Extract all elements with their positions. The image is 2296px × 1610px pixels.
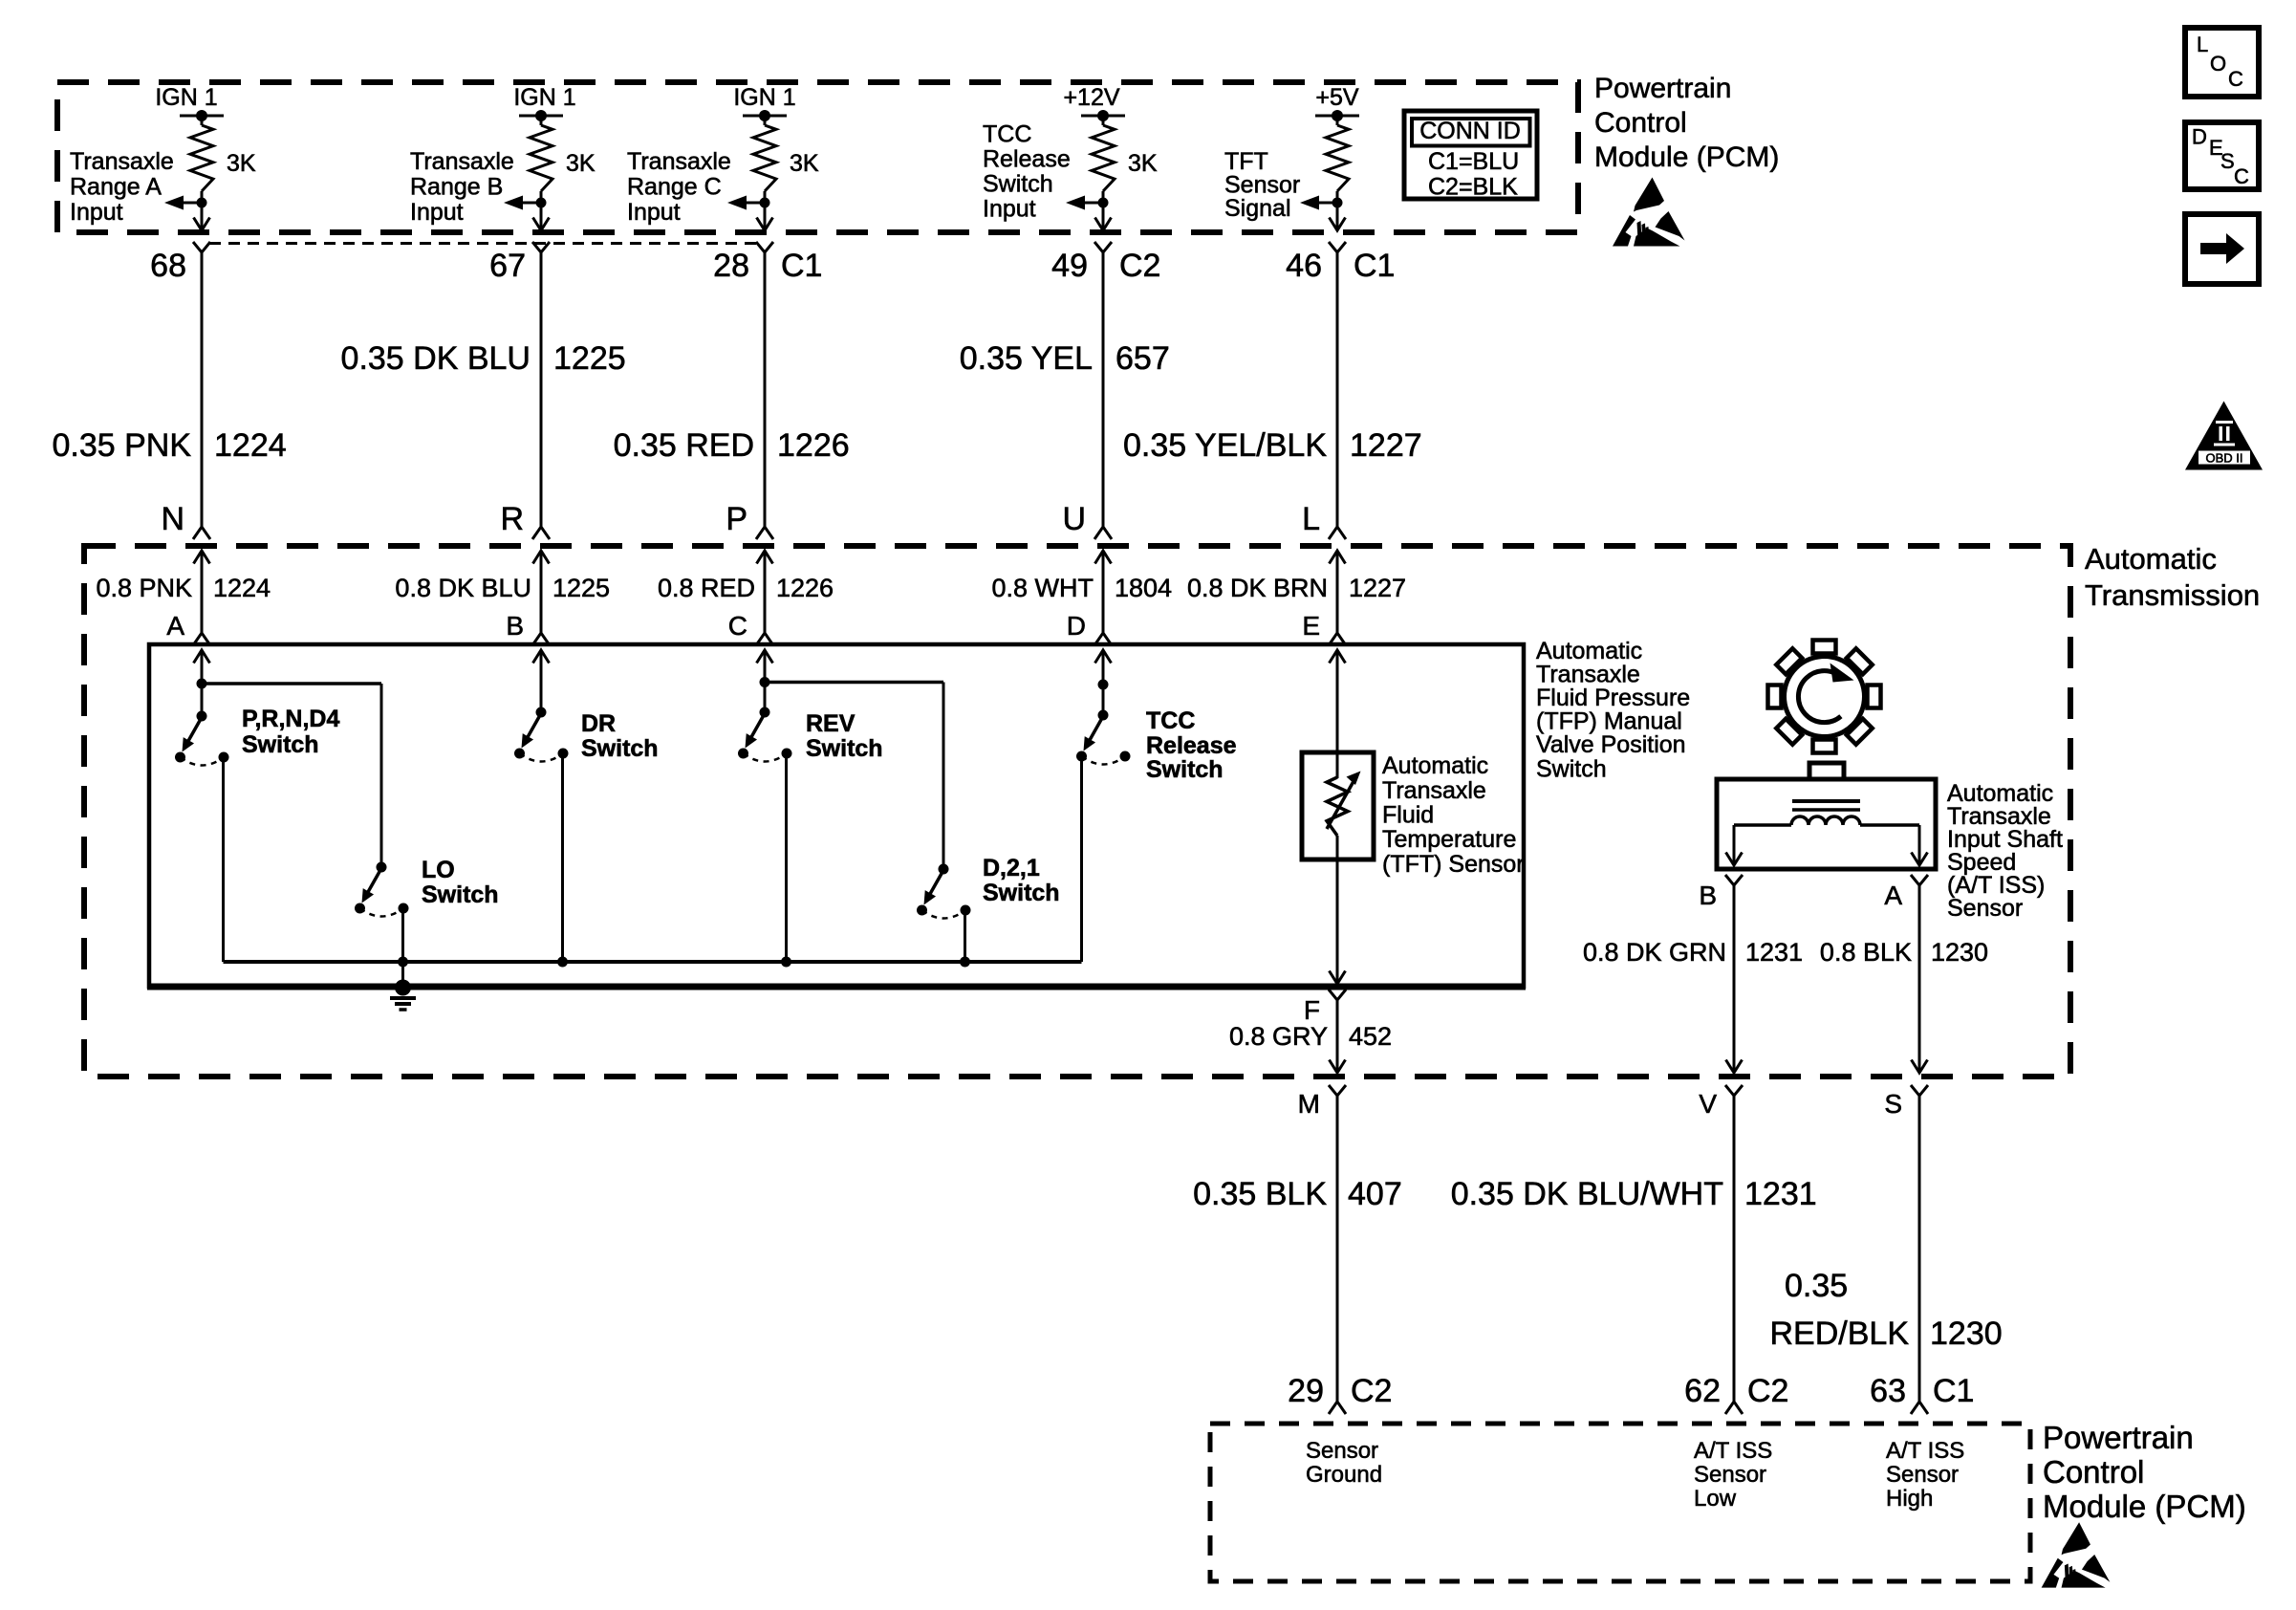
- input tap arrow / node (column R4): [1066, 196, 1109, 210]
- svg-text:Input: Input: [70, 199, 123, 226]
- svg-text:Control: Control: [2043, 1454, 2144, 1490]
- svg-text:E: E: [1302, 611, 1320, 641]
- svg-text:Ground: Ground: [1306, 1462, 1382, 1488]
- wire to module edge: [1330, 203, 1346, 230]
- Powertrain Control Module (PCM) box, top: [57, 82, 1578, 232]
- svg-text:Low: Low: [1694, 1486, 1737, 1512]
- svg-text:Switch: Switch: [983, 880, 1060, 906]
- wire 0.35 BLK 407: [1193, 1096, 1402, 1402]
- svg-text:Transaxle: Transaxle: [627, 148, 731, 175]
- svg-text:Switch: Switch: [422, 881, 499, 908]
- svg-text:Transaxle: Transaxle: [410, 148, 514, 175]
- svg-text:46: 46: [1286, 248, 1322, 284]
- svg-text:1226: 1226: [776, 574, 834, 602]
- svg-text:0.8 DK BLU: 0.8 DK BLU: [395, 574, 531, 602]
- svg-text:1230: 1230: [1931, 938, 1988, 967]
- svg-text:CONN ID: CONN ID: [1419, 118, 1521, 144]
- wire 0.8 DK BLU 1225: [395, 574, 610, 602]
- svg-text:0.35 YEL/BLK: 0.35 YEL/BLK: [1123, 427, 1327, 464]
- DESC icon box: [2185, 122, 2259, 189]
- pin D at TFP switch: [1067, 611, 1112, 645]
- input tap arrow / node (column R3): [727, 196, 770, 210]
- resistor R5 3K: [1326, 116, 1349, 203]
- pin A at TFP switch: [166, 611, 210, 645]
- connector pin 68: [150, 242, 210, 284]
- svg-text:1225: 1225: [553, 340, 626, 377]
- switch P,R,N,D4: [175, 650, 381, 766]
- input tap arrow / node (column R1): [164, 196, 207, 210]
- svg-text:49: 49: [1051, 248, 1088, 284]
- svg-text:0.8 DK GRN: 0.8 DK GRN: [1583, 938, 1726, 967]
- ground connection: [390, 962, 416, 1010]
- svg-text:3K: 3K: [566, 150, 596, 177]
- svg-text:3K: 3K: [227, 150, 256, 177]
- common bus wire: [224, 960, 1082, 964]
- wire 0.8 WHT 1804: [991, 574, 1172, 602]
- svg-text:DR: DR: [581, 710, 616, 737]
- svg-text:Automatic: Automatic: [2085, 542, 2217, 576]
- svg-text:0.35 BLK: 0.35 BLK: [1193, 1176, 1327, 1212]
- switch DR: [514, 650, 659, 762]
- junction: [398, 957, 408, 968]
- svg-text:Transaxle: Transaxle: [70, 148, 174, 175]
- svg-text:1226: 1226: [777, 427, 850, 464]
- wire 0.35 PNK 1224: [52, 252, 286, 527]
- wire into TFP switch box: [757, 650, 773, 664]
- svg-text:(TFT) Sensor: (TFT) Sensor: [1382, 851, 1525, 878]
- svg-text:O: O: [2210, 52, 2226, 76]
- ISS sensor box: [1717, 763, 1936, 869]
- connector pin 49 C2: [1051, 242, 1160, 284]
- input tap arrow / node (column R5): [1300, 196, 1343, 210]
- svg-text:Switch: Switch: [806, 735, 883, 762]
- wire from REV switch to bus: [785, 755, 788, 962]
- svg-text:0.35 RED: 0.35 RED: [614, 427, 754, 464]
- svg-text:OBD II: OBD II: [2205, 451, 2242, 466]
- svg-text:Switch: Switch: [581, 735, 659, 762]
- svg-text:V: V: [1699, 1089, 1717, 1119]
- text label column R5: [1224, 148, 1300, 222]
- svg-text:29: 29: [1288, 1373, 1324, 1409]
- connector pin 62 C2: [1684, 1373, 1788, 1414]
- junction: [557, 957, 568, 968]
- connector pin 28 C1: [713, 242, 822, 284]
- svg-text:67: 67: [489, 248, 526, 284]
- resistor R4 3K: [1092, 116, 1158, 203]
- svg-text:C1: C1: [781, 248, 822, 284]
- resistor R3 3K: [753, 116, 819, 203]
- pin B of ISS sensor: [1699, 875, 1743, 910]
- svg-text:D: D: [1067, 611, 1086, 641]
- svg-text:C: C: [2234, 164, 2249, 188]
- switch D,2,1: [917, 683, 1060, 919]
- OBD II triangle symbol: [2185, 402, 2263, 470]
- svg-text:C2=BLK: C2=BLK: [1428, 174, 1518, 201]
- svg-text:Temperature: Temperature: [1382, 826, 1516, 853]
- svg-text:1224: 1224: [214, 427, 287, 464]
- gear rotor: [1768, 641, 1881, 753]
- svg-text:3K: 3K: [790, 150, 819, 177]
- svg-text:1224: 1224: [213, 574, 271, 602]
- svg-text:657: 657: [1116, 340, 1170, 377]
- svg-text:0.8 RED: 0.8 RED: [658, 574, 755, 602]
- power net IGN 1 (column R3): [733, 84, 795, 121]
- svg-text:0.35 DK BLU: 0.35 DK BLU: [341, 340, 531, 377]
- wire 0.8 DK GRN 1231: [1583, 885, 1803, 1073]
- svg-text:Range C: Range C: [627, 174, 722, 201]
- svg-text:A: A: [1884, 881, 1902, 910]
- connector pin 63 C1: [1870, 1373, 1974, 1414]
- svg-text:C1: C1: [1933, 1373, 1974, 1409]
- svg-text:0.35 PNK: 0.35 PNK: [52, 427, 191, 464]
- svg-text:1231: 1231: [1745, 938, 1803, 967]
- switch TCC Release: [1076, 650, 1237, 783]
- TFP switch label: [1536, 638, 1690, 783]
- text label column R2: [410, 148, 514, 226]
- wire into TFP switch box: [533, 650, 550, 664]
- pin C at TFP switch: [728, 611, 773, 645]
- TFT sensor label: [1382, 752, 1525, 878]
- connector pin 29 C2: [1288, 1373, 1392, 1414]
- svg-text:Powertrain: Powertrain: [1594, 73, 1731, 104]
- connector pin 46 C1: [1286, 242, 1395, 284]
- wire into TFP switch box: [1095, 650, 1112, 664]
- wire 0.35 RED 1226: [614, 252, 850, 527]
- svg-text:C1: C1: [1354, 248, 1395, 284]
- svg-text:C1=BLU: C1=BLU: [1428, 148, 1519, 175]
- svg-text:63: 63: [1870, 1373, 1906, 1409]
- resistor R1 3K: [190, 116, 256, 203]
- A/T ISS Sensor Low label: [1694, 1438, 1772, 1512]
- resistor R2 3K: [530, 116, 596, 203]
- wire 0.35 DK BLU 1225: [341, 252, 626, 527]
- svg-text:Release: Release: [1146, 732, 1237, 759]
- pin A of ISS sensor: [1884, 875, 1928, 910]
- Sensor Ground label: [1306, 1438, 1382, 1488]
- LOC icon box: [2185, 28, 2259, 97]
- wire 0.35 YEL/BLK 1227: [1123, 252, 1422, 527]
- svg-text:M: M: [1298, 1089, 1320, 1119]
- svg-text:Switch: Switch: [1536, 756, 1607, 783]
- svg-text:Sensor: Sensor: [1947, 895, 2023, 922]
- TFT sensor (thermistor): [1302, 752, 1374, 859]
- svg-text:S: S: [1884, 1089, 1902, 1119]
- connector C1 boundary (dashed): [209, 242, 756, 245]
- wire 0.35 YEL 657: [960, 252, 1170, 527]
- svg-text:RED/BLK: RED/BLK: [1770, 1316, 1910, 1352]
- svg-text:28: 28: [713, 248, 749, 284]
- power net +12V (column R4): [1063, 84, 1125, 121]
- wire into transmission: [757, 551, 773, 633]
- svg-text:C: C: [728, 611, 747, 641]
- svg-text:Module (PCM): Module (PCM): [2043, 1489, 2246, 1524]
- connector pin N at transmission: [161, 501, 210, 539]
- svg-text:C2: C2: [1351, 1373, 1392, 1409]
- wire into transmission: [1330, 551, 1346, 633]
- svg-text:452: 452: [1349, 1022, 1392, 1051]
- pin B at TFP switch: [506, 611, 550, 645]
- svg-text:C2: C2: [1119, 248, 1160, 284]
- svg-text:1231: 1231: [1744, 1176, 1817, 1212]
- wire into transmission: [1095, 551, 1112, 633]
- svg-text:407: 407: [1348, 1176, 1402, 1212]
- svg-text:Automatic: Automatic: [1382, 752, 1488, 779]
- ISS sensor coil: [1726, 801, 1928, 865]
- svg-text:L: L: [2197, 33, 2208, 56]
- text label column R3: [627, 148, 731, 226]
- svg-text:P,R,N,D4: P,R,N,D4: [242, 706, 339, 732]
- svg-text:Valve Position: Valve Position: [1536, 731, 1686, 758]
- svg-text:N: N: [161, 501, 184, 537]
- text label column R4: [983, 121, 1071, 223]
- wire into transmission: [533, 551, 550, 633]
- svg-text:0.35 YEL: 0.35 YEL: [960, 340, 1093, 377]
- wire 0.8 BLK 1230: [1820, 885, 1988, 1073]
- Automatic Transmission box (dashed): [84, 546, 2070, 1077]
- svg-text:Sensor: Sensor: [1306, 1438, 1378, 1464]
- wire from P,R,N,D4 switch to bus: [222, 759, 225, 962]
- svg-text:L: L: [1302, 501, 1320, 537]
- svg-text:0.35: 0.35: [1785, 1268, 1848, 1304]
- svg-text:Input: Input: [410, 199, 464, 226]
- forward arrow icon box: [2185, 214, 2259, 284]
- ISS label: [1947, 780, 2063, 922]
- switch REV: [738, 650, 943, 762]
- power net IGN 1 (column R2): [513, 84, 575, 121]
- svg-text:IGN 1: IGN 1: [733, 84, 795, 111]
- connector pin U at transmission: [1062, 501, 1112, 539]
- svg-text:REV: REV: [806, 710, 856, 737]
- svg-text:A/T ISS: A/T ISS: [1886, 1438, 1964, 1464]
- svg-text:0.8 GRY: 0.8 GRY: [1229, 1022, 1328, 1051]
- power net IGN 1 (column R1): [155, 84, 224, 121]
- svg-text:0.8 BLK: 0.8 BLK: [1820, 938, 1912, 967]
- wire 0.8 RED 1226: [658, 574, 834, 602]
- svg-text:3K: 3K: [1128, 150, 1158, 177]
- svg-text:B: B: [506, 611, 524, 641]
- pin S: [1884, 1085, 1928, 1119]
- connector pin 67: [489, 242, 550, 284]
- wire 0.8 GRY 452: [1229, 1000, 1392, 1073]
- ESD-sensitive device symbol (top): [1613, 178, 1685, 247]
- PCM title (bottom right): [2043, 1420, 2246, 1524]
- wire into TFP switch box: [194, 650, 210, 664]
- svg-text:A/T ISS: A/T ISS: [1694, 1438, 1772, 1464]
- wire from D,2,1 switch to bus: [964, 912, 966, 962]
- svg-text:Control: Control: [1594, 107, 1687, 139]
- svg-text:P: P: [726, 501, 747, 537]
- svg-text:Range A: Range A: [70, 174, 162, 201]
- svg-text:0.8 DK BRN: 0.8 DK BRN: [1187, 574, 1328, 602]
- wire 0.8 PNK 1224: [96, 574, 271, 602]
- svg-text:Release: Release: [983, 146, 1071, 173]
- wire from DR switch to bus: [561, 755, 564, 962]
- CONN ID table: [1404, 111, 1537, 201]
- connector pin L at transmission: [1302, 501, 1346, 539]
- svg-text:Input: Input: [627, 199, 681, 226]
- input tap arrow / node (column R2): [504, 196, 547, 210]
- svg-text:Powertrain: Powertrain: [2043, 1420, 2194, 1455]
- wire to module edge: [194, 203, 210, 230]
- svg-text:0.8 PNK: 0.8 PNK: [96, 574, 192, 602]
- svg-text:0.8 WHT: 0.8 WHT: [991, 574, 1094, 602]
- svg-text:A: A: [166, 611, 184, 641]
- svg-text:Switch: Switch: [1146, 756, 1224, 783]
- junction: [960, 957, 970, 968]
- svg-text:TCC: TCC: [983, 121, 1031, 148]
- wire to module edge: [533, 203, 550, 230]
- svg-text:D: D: [2192, 125, 2207, 149]
- svg-text:LO: LO: [422, 857, 455, 883]
- svg-text:Sensor: Sensor: [1694, 1462, 1766, 1488]
- svg-text:U: U: [1062, 501, 1086, 537]
- power net +5V (column R5): [1315, 84, 1359, 121]
- svg-text:1227: 1227: [1349, 574, 1406, 602]
- svg-text:IGN 1: IGN 1: [513, 84, 575, 111]
- Automatic Transmission title: [2085, 542, 2260, 612]
- junction: [781, 957, 791, 968]
- svg-text:High: High: [1886, 1486, 1933, 1512]
- ESD-sensitive device symbol (bottom): [2042, 1522, 2111, 1587]
- svg-text:Sensor: Sensor: [1886, 1462, 1959, 1488]
- connector pin R at transmission: [500, 501, 550, 539]
- svg-text:Switch: Switch: [242, 731, 319, 758]
- PCM title (top right): [1594, 73, 1779, 173]
- wire into transmission: [194, 551, 210, 633]
- svg-text:C: C: [2228, 67, 2243, 91]
- pin E at TFP switch: [1302, 611, 1346, 645]
- wire to module edge: [1095, 203, 1112, 230]
- svg-text:Input: Input: [983, 196, 1036, 223]
- wire 0.8 DK BRN 1227: [1187, 574, 1406, 602]
- wire from TFT sensor to box edge: [1330, 859, 1346, 984]
- switch LO: [355, 684, 499, 917]
- pin V: [1699, 1085, 1743, 1119]
- wire from TCC release switch to bus: [1080, 759, 1083, 962]
- svg-text:IGN 1: IGN 1: [155, 84, 217, 111]
- wire from LO switch to ground bus: [401, 910, 404, 962]
- svg-text:Module (PCM): Module (PCM): [1594, 141, 1779, 173]
- svg-text:R: R: [500, 501, 524, 537]
- wire to module edge: [757, 203, 773, 230]
- svg-text:Range B: Range B: [410, 174, 503, 201]
- svg-text:Fluid: Fluid: [1382, 802, 1434, 829]
- svg-text:1227: 1227: [1350, 427, 1422, 464]
- wire into TFP switch box: [1330, 650, 1346, 664]
- connector pin P at transmission: [726, 501, 773, 539]
- svg-text:Signal: Signal: [1224, 195, 1291, 222]
- TFP manual valve position switch box: [149, 644, 1524, 987]
- wire E into TFT sensor: [1336, 650, 1339, 778]
- svg-text:0.35 DK BLU/WHT: 0.35 DK BLU/WHT: [1451, 1176, 1723, 1212]
- svg-text:+5V: +5V: [1315, 84, 1359, 111]
- svg-text:F: F: [1304, 995, 1320, 1025]
- wire 0.35 DK BLU/WHT 1231: [1451, 1096, 1817, 1402]
- svg-text:1804: 1804: [1115, 574, 1172, 602]
- svg-text:TCC: TCC: [1146, 707, 1195, 734]
- svg-text:S: S: [2220, 149, 2235, 173]
- pin M: [1298, 1085, 1346, 1119]
- pin F: [1304, 990, 1346, 1025]
- A/T ISS Sensor High label: [1886, 1438, 1964, 1512]
- svg-text:1230: 1230: [1930, 1316, 2003, 1352]
- text label column R1: [70, 148, 174, 226]
- Powertrain Control Module (PCM) box, bottom: [1210, 1424, 2030, 1581]
- svg-text:Transmission: Transmission: [2085, 578, 2260, 612]
- svg-text:1225: 1225: [552, 574, 610, 602]
- svg-text:68: 68: [150, 248, 186, 284]
- svg-text:Transaxle: Transaxle: [1382, 777, 1486, 804]
- svg-text:+12V: +12V: [1063, 84, 1119, 111]
- svg-text:C2: C2: [1747, 1373, 1788, 1409]
- wire 0.35 RED/BLK 1230: [1770, 1096, 2003, 1402]
- svg-text:B: B: [1699, 881, 1717, 910]
- svg-text:Switch: Switch: [983, 171, 1053, 198]
- svg-text:62: 62: [1684, 1373, 1721, 1409]
- svg-text:D,2,1: D,2,1: [983, 855, 1040, 881]
